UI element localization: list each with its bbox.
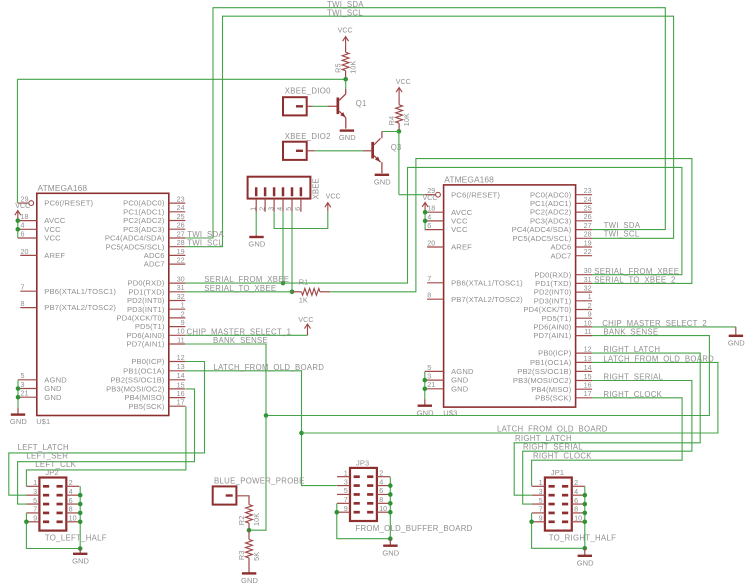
junction at U$1 pin 18 (15, 218, 20, 223)
svg-text:GND: GND (451, 384, 469, 393)
svg-text:8: 8 (574, 505, 578, 514)
junction JP2 pin 9 (24, 520, 29, 525)
svg-text:Q3: Q3 (391, 143, 402, 152)
U$3 pin 12 PB0(ICP) (538, 345, 592, 358)
Q1 emitter lead (345, 118, 347, 129)
connector JP2 (26, 468, 79, 531)
svg-text:3: 3 (33, 487, 37, 496)
junction JP2 pin 8 (78, 511, 83, 516)
svg-text:RIGHT_LATCH: RIGHT_LATCH (603, 345, 660, 354)
U$1 pin 24 PC1(ADC1) (123, 203, 185, 216)
svg-text:5: 5 (21, 371, 25, 380)
wire U$3 VCC rail (424, 211, 426, 229)
svg-text:7: 7 (33, 505, 37, 514)
wire Q3 collector to junction (382, 131, 399, 133)
junction at U$3 pin 18 (423, 210, 428, 215)
svg-text:5K: 5K (252, 552, 261, 561)
junction R4/Q3/RESET2 (397, 129, 402, 134)
IC body U$3 (444, 175, 576, 407)
svg-text:CHIP_MASTER_SELECT_1: CHIP_MASTER_SELECT_1 (187, 327, 292, 336)
svg-text:JP1: JP1 (551, 468, 564, 477)
svg-text:PC5(ADC5/SCL): PC5(ADC5/SCL) (106, 242, 165, 251)
junction R5/Q1/RESET1 (343, 77, 348, 82)
svg-text:8: 8 (21, 299, 25, 308)
net SERIAL_TO_XBEE wire right part (330, 159, 692, 292)
U$1 pin 13 PB1(OC1A) (123, 362, 185, 375)
svg-text:4: 4 (427, 212, 431, 221)
junction at U$3 pin 4 (423, 219, 428, 224)
U$3 pin 13 PB1(OC1A) (530, 354, 592, 367)
svg-text:R5: R5 (334, 63, 343, 73)
svg-text:9: 9 (181, 318, 185, 327)
svg-text:26: 26 (584, 212, 592, 221)
U$3 pin 32 PD2(INT0) (534, 284, 592, 297)
svg-text:TWI_SDA: TWI_SDA (187, 230, 224, 239)
svg-text:23: 23 (584, 186, 592, 195)
svg-text:10: 10 (177, 327, 185, 336)
svg-text:PC2(ADC2): PC2(ADC2) (530, 208, 572, 217)
svg-text:6: 6 (21, 229, 25, 238)
svg-text:9: 9 (539, 514, 543, 523)
resistor R1 1K (299, 278, 320, 305)
wire XBEE pin4 down to serial rail (282, 212, 284, 283)
svg-text:R3: R3 (237, 550, 246, 560)
U$1 pin 11 PD7(AIN1) (127, 335, 186, 348)
svg-text:PD7(AIN1): PD7(AIN1) (127, 340, 165, 349)
net RIGHT_SERIAL wire (523, 381, 692, 505)
U$3 pin 30 PD0(RXD) (534, 266, 592, 279)
R5 bottom lead (345, 71, 347, 80)
svg-text:GND: GND (374, 177, 391, 186)
svg-text:PD0(RXD): PD0(RXD) (534, 270, 571, 279)
transistor Q1 NPN (337, 94, 367, 118)
resistor R5 10K (334, 52, 358, 73)
svg-text:U$1: U$1 (36, 417, 50, 426)
svg-text:PD6(AIN0): PD6(AIN0) (533, 323, 571, 332)
svg-text:10: 10 (69, 514, 77, 523)
svg-text:VCC: VCC (15, 203, 30, 210)
U$3 pin 6 VCC (425, 221, 468, 234)
svg-text:ATMEGA168: ATMEGA168 (444, 175, 494, 185)
svg-text:GND: GND (451, 376, 469, 385)
U$3 pin 7 PB6(XTAL1/TOSC1) (427, 274, 523, 287)
svg-text:PC1(ADC1): PC1(ADC1) (530, 199, 572, 208)
net LEFT_LATCH wire (9, 362, 205, 496)
svg-text:28: 28 (177, 238, 185, 247)
svg-text:24: 24 (584, 195, 592, 204)
svg-text:PD4(XCK/T0): PD4(XCK/T0) (523, 305, 571, 314)
U$3 pin 29 PC6(/RESET) (425, 186, 501, 199)
svg-text:RIGHT_SERIAL: RIGHT_SERIAL (603, 373, 663, 382)
svg-text:PB6(XTAL1/TOSC1): PB6(XTAL1/TOSC1) (44, 287, 116, 296)
U$3 pin 8 PB7(XTAL2/TOSC2) (427, 291, 523, 304)
svg-text:GND: GND (10, 417, 27, 426)
svg-text:4: 4 (69, 487, 73, 496)
svg-text:RIGHT_CLOCK: RIGHT_CLOCK (533, 452, 592, 461)
junction JP3 pin 4 (388, 483, 393, 488)
U$3 pin 17 PB5(SCK) (535, 389, 592, 402)
U$1 GND lead (17, 408, 19, 414)
svg-text:LATCH_FROM_OLD_BOARD: LATCH_FROM_OLD_BOARD (214, 363, 325, 372)
probe pin lead (236, 496, 249, 505)
U$1 pin 19 ADC6 (144, 247, 186, 260)
VCC symbol at U$3 (0, 0, 428, 211)
junction JP1 pin 9 (529, 520, 534, 525)
svg-text:6: 6 (574, 496, 578, 505)
junction at U$3 pin 21 (423, 387, 428, 392)
svg-text:PB2(SS/OC1B): PB2(SS/OC1B) (110, 375, 164, 384)
ground at R3 (241, 573, 258, 585)
wire BANK_SENSE down to divider (249, 416, 266, 531)
svg-text:PC4(ADC4/SDA): PC4(ADC4/SDA) (105, 234, 165, 243)
U$1 pin 15 PB3(MOSI/OC2) (106, 380, 185, 393)
svg-text:7: 7 (21, 283, 25, 292)
junction JP2 GND tap (78, 546, 83, 551)
U$3 pin 11 PD7(AIN1) (533, 327, 592, 340)
Q1 collector lead (345, 89, 347, 94)
svg-text:LATCH_FROM_OLD_BOARD: LATCH_FROM_OLD_BOARD (603, 355, 714, 364)
svg-text:ADC7: ADC7 (551, 251, 572, 260)
svg-text:19: 19 (177, 247, 185, 256)
svg-text:5: 5 (344, 486, 348, 495)
U$3 pin 25 PC2(ADC2) (530, 204, 592, 217)
svg-text:R2: R2 (237, 516, 246, 526)
svg-text:12: 12 (584, 345, 592, 354)
U$3 pin 21 GND (425, 380, 469, 393)
CMS1 VCC lead (307, 333, 309, 335)
svg-text:PB3(MOSI/OC2): PB3(MOSI/OC2) (106, 385, 165, 394)
U$3 pin 3 GND (425, 372, 469, 385)
U$1 pin 3 GND (18, 380, 62, 393)
svg-text:R1: R1 (299, 278, 309, 287)
R2 bottom lead (248, 523, 250, 530)
svg-text:VCC: VCC (396, 79, 411, 86)
R4 bottom lead (398, 123, 400, 131)
junction JP3 pin 10 (388, 510, 393, 515)
wire junction to Q1 collector (345, 79, 347, 89)
svg-text:25: 25 (584, 204, 592, 213)
U$3 pin 28 PC5(ADC5/SCL) (512, 230, 592, 243)
svg-text:PB1(OC1A): PB1(OC1A) (530, 358, 572, 367)
R5 top lead (345, 46, 347, 53)
svg-text:10: 10 (379, 504, 387, 513)
VCC symbol above R4 (0, 0, 402, 97)
U$1 pin 14 PB2(SS/OC1B) (110, 371, 185, 384)
svg-text:PD4(XCK/T0): PD4(XCK/T0) (117, 314, 165, 323)
junction at U$3 pin 3 (423, 378, 428, 383)
svg-text:PB0(ICP): PB0(ICP) (538, 349, 572, 358)
svg-text:28: 28 (584, 230, 592, 239)
U$1 pin 31 PD1(TXD) (128, 283, 185, 296)
svg-text:21: 21 (427, 380, 435, 389)
svg-text:PD5(T1): PD5(T1) (135, 322, 165, 331)
svg-text:4: 4 (21, 221, 25, 230)
svg-text:PC4(ADC4/SDA): PC4(ADC4/SDA) (512, 225, 572, 234)
net RESET2: wire junction down (398, 132, 400, 195)
svg-text:PB2(SS/OC1B): PB2(SS/OC1B) (517, 367, 571, 376)
junction at U$1 pin 4 (15, 227, 20, 232)
svg-text:22: 22 (584, 247, 592, 256)
svg-text:PD0(RXD): PD0(RXD) (128, 279, 165, 288)
U$3 pin 10 PD6(AIN0) (533, 318, 592, 331)
svg-text:11: 11 (177, 335, 184, 344)
svg-text:RIGHT_CLOCK: RIGHT_CLOCK (603, 390, 662, 399)
svg-text:7: 7 (427, 274, 431, 283)
net BANK_SENSE wire (185, 336, 709, 416)
net RESET1: wire from U$1 pin 29 up left edge (16, 79, 18, 203)
svg-text:VCC: VCC (423, 195, 438, 202)
junction XBEE pin4 / SERIAL_FROM_XBEE (281, 281, 286, 286)
svg-text:VCC: VCC (326, 193, 341, 200)
net LEFT_CLK wire (26, 406, 186, 486)
svg-text:PB0(ICP): PB0(ICP) (131, 357, 165, 366)
svg-text:1: 1 (250, 207, 257, 211)
svg-text:SERIAL_FROM_XBEE: SERIAL_FROM_XBEE (204, 275, 289, 284)
svg-text:PD7(AIN1): PD7(AIN1) (533, 331, 571, 340)
svg-text:U$3: U$3 (443, 409, 457, 418)
svg-text:11: 11 (584, 327, 591, 336)
junction JP1 GND tap (583, 546, 588, 551)
junction JP1 pin 10 (583, 520, 588, 525)
svg-text:26: 26 (177, 221, 185, 230)
svg-text:15: 15 (584, 372, 592, 381)
svg-text:6: 6 (295, 207, 302, 211)
ground at XBEE pin1 (248, 237, 265, 249)
svg-text:7: 7 (344, 495, 348, 504)
ground at JP3 (382, 546, 399, 558)
svg-text:6: 6 (379, 486, 383, 495)
svg-text:19: 19 (584, 238, 592, 247)
svg-text:3: 3 (427, 372, 431, 381)
U$3 GND lead (424, 399, 426, 405)
svg-text:AVCC: AVCC (44, 216, 65, 225)
svg-text:SERIAL_TO_XBEE: SERIAL_TO_XBEE (204, 284, 276, 293)
svg-text:GND: GND (248, 240, 265, 249)
U$1 pin 4 VCC (18, 221, 61, 234)
IC body U$1 (37, 183, 169, 416)
U$1 pin 6 VCC (18, 229, 61, 242)
svg-text:R4: R4 (387, 116, 396, 126)
svg-text:27: 27 (584, 221, 592, 230)
junction at U$1 pin 3 (16, 386, 21, 391)
svg-text:8: 8 (69, 505, 73, 514)
U$1 pin 28 PC5(ADC5/SCL) (106, 238, 186, 251)
svg-text:9: 9 (33, 514, 37, 523)
U$3 pin 20 AREF (427, 238, 472, 251)
connector pad XBEE_DIO0 (283, 87, 331, 116)
svg-text:PB5(SCK): PB5(SCK) (535, 393, 572, 402)
U$3 pin 18 AVCC (425, 204, 473, 217)
svg-text:RIGHT_SERIAL: RIGHT_SERIAL (523, 443, 583, 452)
U$3 pin 19 ADC6 (551, 238, 593, 251)
svg-text:4: 4 (574, 487, 578, 496)
svg-text:1: 1 (588, 292, 592, 301)
svg-text:TO_RIGHT_HALF: TO_RIGHT_HALF (549, 533, 616, 542)
svg-text:VCC: VCC (338, 28, 353, 35)
svg-text:GND: GND (44, 393, 62, 402)
net LEFT_SER wire (18, 389, 195, 504)
resistor R2 10K (237, 505, 261, 526)
XBEE_DIO2 pin stub (307, 150, 315, 152)
net RESET2: wire to U$3 pin 29 (399, 194, 425, 196)
resistor R3 5K (237, 540, 261, 561)
svg-text:13: 13 (584, 354, 592, 363)
svg-text:18: 18 (427, 204, 435, 213)
svg-text:18: 18 (21, 212, 29, 221)
svg-text:TWI_SCL: TWI_SCL (327, 8, 363, 17)
ground at JP2 (72, 554, 89, 566)
connector pad XBEE_DIO2 (283, 132, 331, 160)
svg-text:PC0(ADC0): PC0(ADC0) (123, 199, 165, 208)
wire XBEE_DIO2 to Q3 base (315, 150, 364, 152)
svg-text:PC3(ADC3): PC3(ADC3) (123, 225, 165, 234)
svg-text:4: 4 (277, 207, 284, 211)
U$1 pin 23 PC0(ADC0) (123, 195, 185, 208)
svg-text:29: 29 (21, 195, 29, 204)
Q3 emitter lead (381, 162, 383, 173)
svg-text:GND: GND (241, 576, 258, 585)
svg-text:TWI_SCL: TWI_SCL (187, 239, 223, 248)
U$1 pin 8 PB7(XTAL2/TOSC2) (20, 299, 116, 312)
svg-text:SERIAL_TO_XBEE_2: SERIAL_TO_XBEE_2 (594, 276, 675, 285)
svg-text:JP3: JP3 (356, 458, 369, 467)
ground at CHIP_MASTER_SELECT_2 (728, 336, 745, 348)
svg-text:24: 24 (177, 203, 185, 212)
net CHIP_MASTER_SELECT_2 wire (592, 326, 736, 328)
Q3 base lead (363, 150, 371, 152)
svg-text:PB3(MOSI/OC2): PB3(MOSI/OC2) (513, 376, 572, 385)
svg-text:17: 17 (177, 398, 185, 407)
svg-text:1: 1 (181, 301, 185, 310)
svg-text:CHIP_MASTER_SELECT_2: CHIP_MASTER_SELECT_2 (602, 319, 707, 328)
svg-text:AVCC: AVCC (451, 208, 472, 217)
U$3 pin 2 PD4(XCK/T0) (523, 301, 592, 314)
svg-text:PB1(OC1A): PB1(OC1A) (123, 366, 165, 375)
svg-text:LEFT_LATCH: LEFT_LATCH (18, 443, 69, 452)
JP3 GND lead (389, 539, 391, 545)
net RIGHT_CLOCK wire (532, 398, 683, 487)
svg-text:PD3(INT1): PD3(INT1) (534, 296, 572, 305)
svg-text:VCC: VCC (451, 217, 468, 226)
resistor R4 10K (387, 105, 411, 126)
net LATCH_FROM_OLD_BOARD bottom rail (302, 362, 718, 433)
U$3 pin 9 PD5(T1) (542, 310, 592, 323)
svg-text:5: 5 (286, 207, 293, 211)
svg-text:ADC7: ADC7 (144, 260, 165, 269)
U$1 pin 17 PB5(SCK) (128, 398, 185, 411)
U$3 pin 26 PC3(ADC3) (530, 212, 592, 225)
U$1 pin 21 GND (18, 389, 62, 402)
svg-text:8: 8 (379, 495, 383, 504)
svg-text:SERIAL_FROM_XBEE: SERIAL_FROM_XBEE (594, 267, 679, 276)
svg-text:GND: GND (382, 548, 399, 557)
VCC symbol at U$1 RESET (15, 203, 30, 219)
svg-text:LATCH_FROM_OLD_BOARD: LATCH_FROM_OLD_BOARD (497, 425, 608, 434)
svg-text:AGND: AGND (451, 367, 474, 376)
svg-text:20: 20 (427, 238, 435, 247)
U$3 pin 16 PB4(MISO) (531, 381, 592, 394)
svg-text:27: 27 (177, 229, 185, 238)
svg-text:PD2(INT0): PD2(INT0) (534, 288, 572, 297)
svg-text:TWI_SDA: TWI_SDA (604, 221, 641, 230)
connector XBEE (248, 177, 321, 212)
U$1 pin 7 PB6(XTAL1/TOSC1) (20, 283, 116, 296)
svg-text:3: 3 (268, 207, 275, 211)
wire U$3 GND rail (424, 371, 426, 399)
U$3 pin 1 PD3(INT1) (534, 292, 592, 305)
junction divider mid (247, 528, 252, 533)
svg-text:GND: GND (339, 133, 356, 142)
svg-text:10K: 10K (252, 513, 261, 526)
U$3 pin 4 VCC (425, 212, 468, 225)
svg-text:PC1(ADC1): PC1(ADC1) (123, 207, 165, 216)
svg-text:10: 10 (584, 318, 592, 327)
XBEE_DIO0 pin stub (307, 105, 313, 107)
svg-text:9: 9 (344, 504, 348, 513)
svg-text:ADC6: ADC6 (144, 251, 165, 260)
U$1 pin 1 PD3(INT1) (127, 301, 185, 314)
VCC symbol above R5 (0, 0, 349, 46)
wire U$1 VCC rail (17, 220, 19, 238)
JP1 ground chain wire (532, 486, 585, 548)
junction XBEE pin5 / R1 (290, 290, 295, 295)
R3 bottom lead (248, 558, 250, 573)
U$1 pin 29 PC6(/RESET) (18, 195, 94, 208)
junction JP1 pin 8 (583, 511, 588, 516)
svg-text:10K: 10K (402, 113, 411, 126)
svg-text:AREF: AREF (451, 243, 472, 252)
svg-text:6: 6 (69, 496, 73, 505)
svg-text:JP2: JP2 (45, 468, 58, 477)
connector JP1 (532, 468, 585, 531)
svg-text:10: 10 (574, 514, 582, 523)
junction at U$1 pin 21 (16, 395, 21, 400)
svg-text:BANK_SENSE: BANK_SENSE (213, 336, 268, 345)
junction JP2 pin 6 (78, 502, 83, 507)
U$1 pin 12 PB0(ICP) (131, 353, 185, 366)
svg-text:2: 2 (379, 468, 383, 477)
junction JP3 pin 6 (388, 492, 393, 497)
svg-text:PC5(ADC5/SCL): PC5(ADC5/SCL) (512, 234, 571, 243)
R1 right lead (320, 291, 330, 293)
svg-text:VCC: VCC (44, 225, 61, 234)
wire XBEE pin3 to VCC (274, 212, 328, 229)
svg-text:22: 22 (177, 256, 185, 265)
svg-text:PB7(XTAL2/TOSC2): PB7(XTAL2/TOSC2) (44, 303, 116, 312)
svg-text:14: 14 (584, 363, 592, 372)
XBEE pin1 GND lead (255, 235, 257, 236)
svg-text:30: 30 (177, 275, 185, 284)
U$3 pin 5 AGND (425, 363, 474, 376)
U$1 pin 32 PD2(INT0) (127, 292, 185, 305)
U$3 pin 14 PB2(SS/OC1B) (517, 363, 592, 376)
net SERIAL_TO_XBEE wire left part (185, 291, 292, 293)
svg-text:15: 15 (177, 380, 185, 389)
svg-text:30: 30 (584, 266, 592, 275)
wire LATCH to JP3 pin 3 (302, 485, 337, 487)
svg-text:20: 20 (21, 247, 29, 256)
svg-text:AREF: AREF (44, 251, 65, 260)
svg-text:23: 23 (177, 195, 185, 204)
junction JP3 GND tap (388, 536, 393, 541)
wire U$1 GND rail (17, 380, 19, 408)
svg-text:5: 5 (427, 363, 431, 372)
Q1 base lead (327, 105, 336, 107)
svg-text:PD5(T1): PD5(T1) (542, 314, 572, 323)
svg-text:2: 2 (588, 301, 592, 310)
svg-text:1: 1 (33, 478, 37, 487)
net RIGHT_LATCH wire (514, 353, 700, 495)
